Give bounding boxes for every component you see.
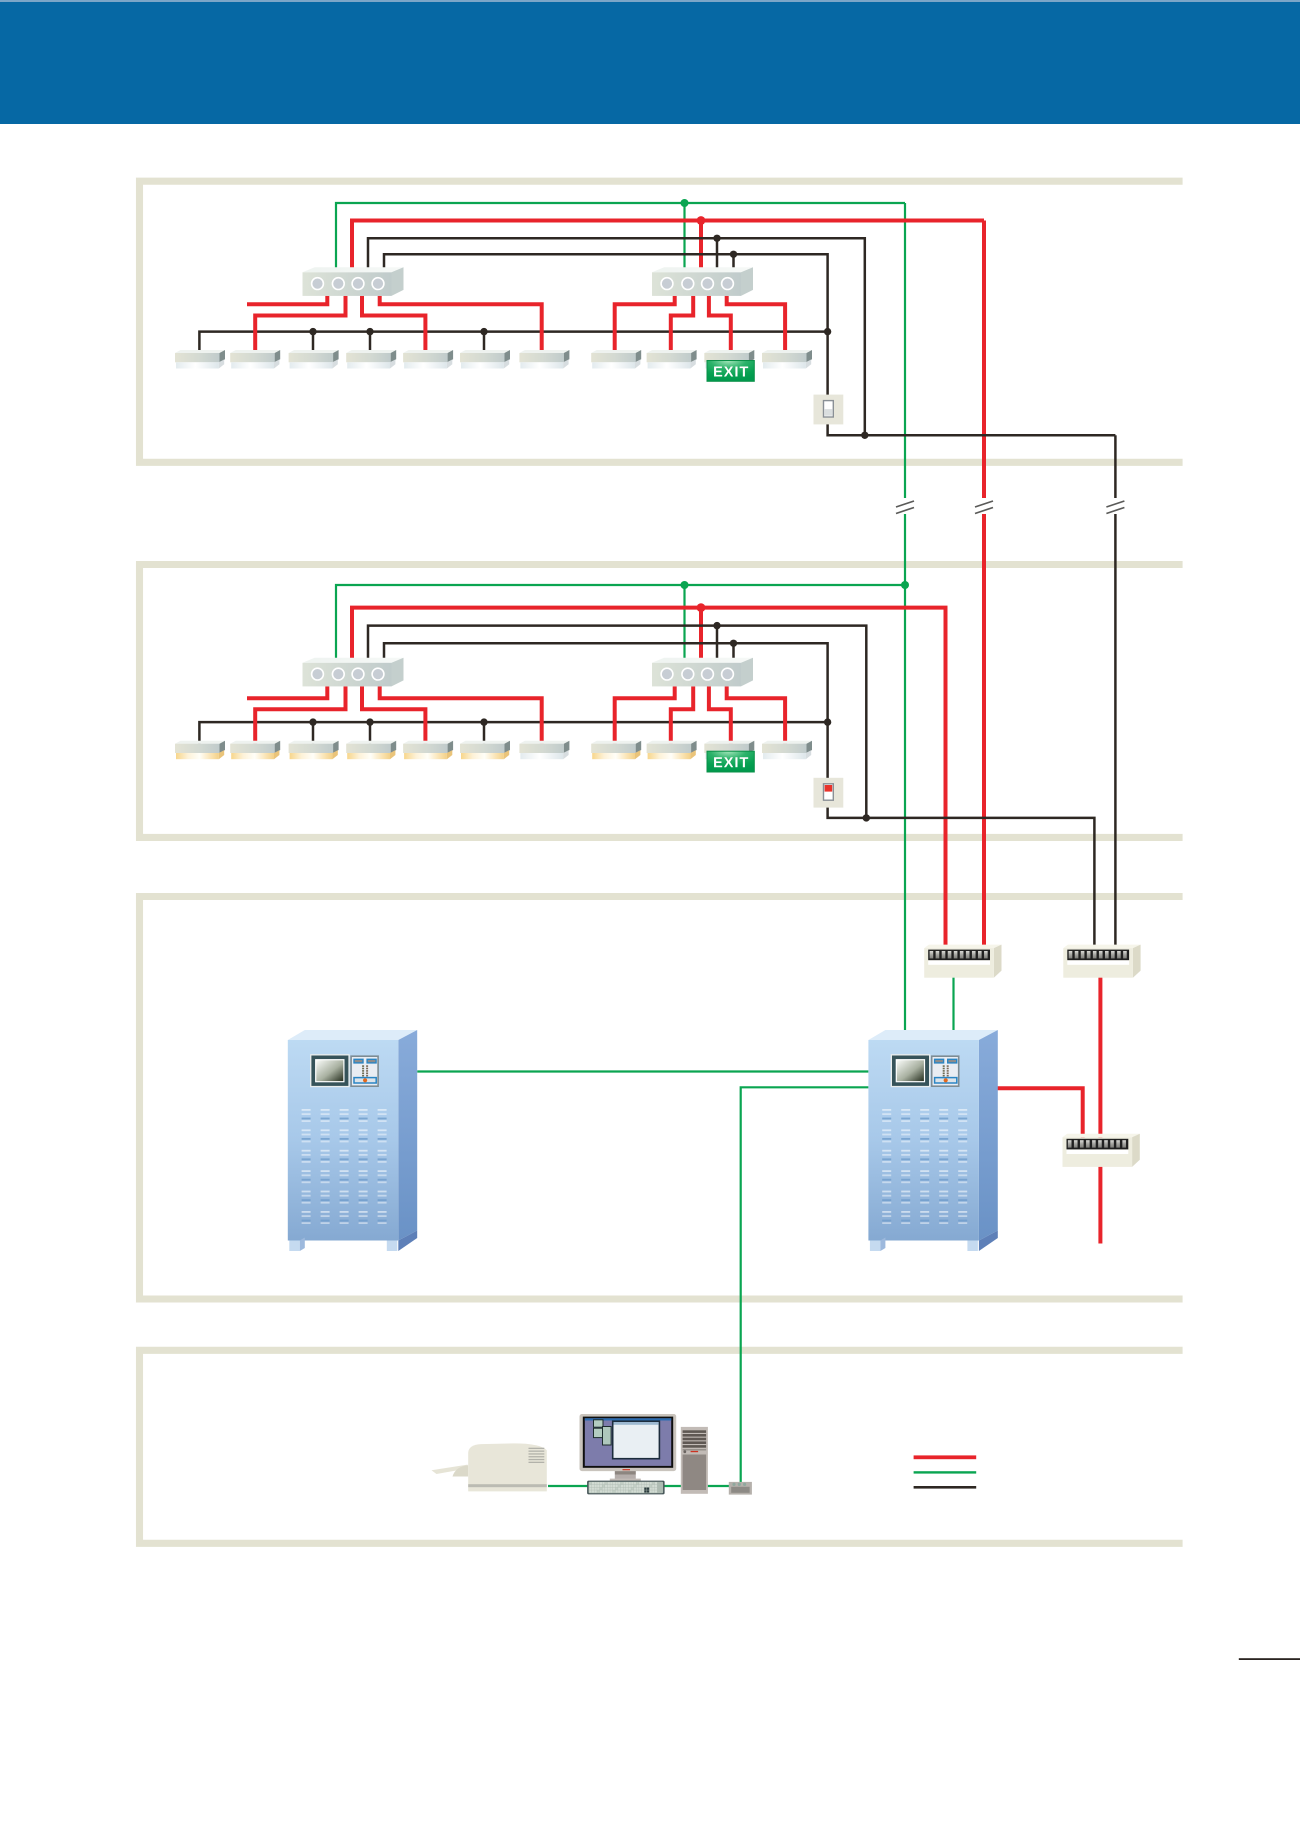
wire: red feed to luminaire 11 floor2 — [727, 686, 785, 743]
section 3 frame — [140, 897, 1183, 1300]
legend: green data line — [914, 1471, 977, 1473]
luminaire 10 floor1 — [704, 350, 754, 369]
wire: black drop 2 to controller 2 floor1 — [732, 254, 735, 271]
section 1 frame — [140, 181, 1183, 462]
luminaire 3 floor1 — [289, 350, 339, 369]
luminaire 11 floor1 — [762, 350, 812, 369]
wire: black drop to luminaire floor2 — [369, 722, 372, 744]
terminal block 2 — [1063, 945, 1140, 978]
controller unit 2 floor1 — [652, 267, 753, 296]
junction on red line floor2 — [697, 603, 706, 612]
exit sign floor1 — [707, 361, 754, 382]
luminaire 9 floor1 — [647, 350, 697, 369]
wire: red output central unit to terminal block 3 — [996, 1088, 1083, 1140]
wire: green link from terminal block 1 to central unit — [952, 975, 954, 1034]
terminal block 1 — [924, 945, 1001, 978]
junction black line 2 floor1 — [730, 251, 737, 258]
junction luminaire bus x=370 floor1 — [366, 328, 373, 335]
wire: black switched-line riser from floor 2 — [1114, 435, 1117, 498]
luminaire 6 floor1 — [460, 350, 510, 369]
junction black line 1 floor1 — [713, 235, 720, 242]
wire: red feed to luminaire 11 floor1 — [727, 296, 785, 353]
junction luminaire bus x=313 floor2 — [309, 718, 316, 725]
terminal block 3 — [1063, 1134, 1140, 1167]
controller unit 2 floor2 — [652, 658, 753, 687]
wire: red drop to controller 2 floor1 — [699, 221, 703, 272]
junction on green line floor2 — [681, 581, 689, 589]
luminaire 9 floor2 — [647, 741, 697, 760]
wire: black from switch down to terminal block floor2 — [828, 805, 1095, 946]
junction black line 2 floor2 — [730, 640, 737, 647]
luminaire 4 floor2 — [346, 741, 396, 760]
legend: black switched line — [914, 1486, 977, 1489]
section 4 frame — [140, 1350, 1183, 1543]
wire: green drop to controller 2 floor1 — [683, 203, 685, 271]
luminaire 10 floor2 — [704, 741, 754, 760]
monitor — [580, 1414, 677, 1471]
luminaire 2 floor2 — [230, 741, 280, 760]
wire: red feed to luminaire 7 floor2 — [380, 686, 542, 743]
junction luminaire bus x=313 floor1 — [309, 328, 316, 335]
wire: black drop 1 to controller 2 floor1 — [716, 238, 719, 271]
junction luminaire bus x=484 floor2 — [480, 718, 487, 725]
computer tower — [681, 1427, 708, 1494]
luminaire 1 floor1 — [175, 350, 225, 369]
break symbol on green riser — [896, 501, 914, 514]
wire: black drop to luminaire floor1 — [483, 332, 486, 353]
luminaire 5 floor2 — [403, 741, 453, 760]
wire: black luminaire bus floor1 — [199, 332, 827, 353]
luminaire 7 floor2 — [519, 741, 569, 760]
luminaire 4 floor1 — [346, 350, 396, 369]
controller unit 1 floor1 — [303, 267, 404, 296]
light switch floor2 — [814, 778, 844, 808]
wire: black drop 2 to controller 2 floor2 — [732, 643, 735, 662]
wire: green link between battery cabinets — [417, 1070, 868, 1072]
wire: green data cable to PC — [548, 1485, 741, 1487]
luminaire 8 floor1 — [591, 350, 641, 369]
wire: black drop to luminaire floor2 — [483, 722, 486, 744]
junction luminaire bus x=370 floor2 — [366, 718, 373, 725]
wire: red stub from controller 1 output 1 floor2 — [247, 686, 327, 698]
luminaire 1 floor2 — [175, 741, 225, 760]
junction luminaire bus x=484 floor1 — [480, 328, 487, 335]
wire: red feed to luminaire 8 floor2 — [615, 686, 675, 743]
wire: red supply line floor1 — [352, 221, 984, 272]
luminaire 3 floor2 — [289, 741, 339, 760]
wire: red feed to luminaire 2 floor1 — [255, 296, 345, 353]
wire: black line 1 floor1 — [368, 238, 865, 435]
wire: red drop to controller 2 floor2 — [699, 608, 703, 662]
wire: red feed to luminaire 5 floor2 — [362, 686, 425, 743]
wire: black line 2 floor2 — [384, 643, 828, 722]
luminaire 6 floor2 — [460, 741, 510, 760]
wire: green data bus riser (vertical through floors) — [904, 203, 906, 498]
wire: red feed to exit luminaire floor1 — [709, 296, 731, 353]
wire: red feed to luminaire 9 floor1 — [671, 296, 693, 353]
wire: black luminaire bus floor2 — [199, 722, 827, 744]
exit sign floor2 — [707, 751, 754, 772]
battery cabinet 2 (central unit) — [868, 1030, 997, 1251]
wire: black drop to luminaire floor1 — [312, 332, 315, 353]
keyboard — [587, 1481, 665, 1495]
battery cabinet 1 — [288, 1030, 417, 1251]
footer rule — [1239, 1658, 1300, 1660]
wire: green monitoring line floor2 — [336, 585, 905, 662]
light switch floor1 — [814, 395, 844, 425]
wire: black drop to luminaire floor1 — [369, 332, 372, 353]
monitor stand — [610, 1471, 641, 1483]
wire: red feed to luminaire 9 floor2 — [671, 686, 693, 743]
network interface box — [729, 1482, 752, 1495]
printer — [432, 1443, 547, 1491]
luminaire 8 floor2 — [591, 741, 641, 760]
wire: red line through terminal block 3 — [1098, 975, 1102, 1244]
wire: red mains riser from floor 2 circuit — [982, 221, 986, 499]
junction on red line floor1 — [697, 216, 706, 225]
controller unit 1 floor2 — [303, 658, 404, 687]
wire: black drop 1 to controller 2 floor2 — [716, 626, 719, 662]
wire: red feed to luminaire 8 floor1 — [615, 296, 675, 353]
break symbol on red riser — [975, 501, 993, 514]
junction switch line / black vertical floor1 — [861, 432, 868, 439]
luminaire 5 floor1 — [403, 350, 453, 369]
junction on green line floor1 — [681, 199, 689, 207]
junction green line to riser floor2 — [901, 581, 909, 589]
junction switch line / black vertical floor2 — [863, 814, 870, 821]
header band — [0, 0, 1300, 124]
wire: red feed to exit luminaire floor2 — [709, 686, 731, 743]
legend: red mains supply line — [914, 1455, 977, 1459]
junction bus end at switch feed floor2 — [824, 718, 831, 725]
wire: black from switch to riser floor1 — [828, 422, 1116, 436]
wire: red feed to luminaire 5 floor1 — [362, 296, 425, 353]
wire: green drop to controller 2 floor2 — [683, 585, 685, 662]
wire: red feed to luminaire 7 floor1 — [380, 296, 542, 353]
luminaire 2 floor1 — [230, 350, 280, 369]
junction black line 1 floor2 — [713, 622, 720, 629]
wire: red supply line floor2 — [352, 608, 946, 946]
wire: black line 2 floor1 — [384, 254, 828, 331]
junction bus end at switch feed floor1 — [824, 328, 831, 335]
section 2 frame — [140, 565, 1183, 838]
wire: red stub from controller 1 output 1 floor1 — [247, 296, 327, 304]
wire: black line 1 floor2 — [368, 626, 866, 818]
wire: black feed into light switch floor1 — [826, 332, 829, 397]
wire: red feed to luminaire 2 floor2 — [255, 686, 345, 743]
wire: green link central unit to PC workstation — [741, 1087, 869, 1484]
wire: black drop to luminaire floor2 — [312, 722, 315, 744]
wire: black feed into light switch floor2 — [826, 722, 829, 780]
luminaire 7 floor1 — [519, 350, 569, 369]
wire: green monitoring line floor1 — [336, 203, 905, 271]
luminaire 11 floor2 — [762, 741, 812, 760]
break symbol on black riser — [1106, 501, 1124, 514]
